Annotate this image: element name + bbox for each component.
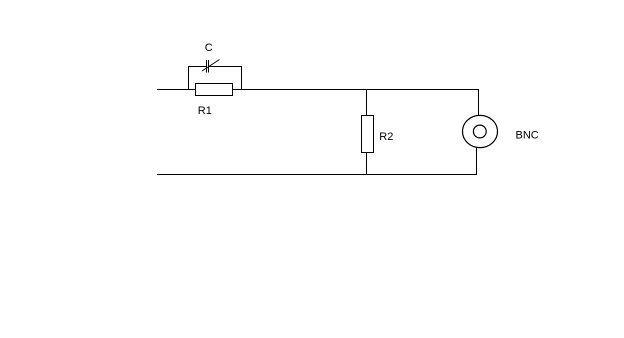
wire loop right vertical <box>241 66 243 90</box>
wire BNC branch bottom vertical <box>476 148 478 175</box>
resistor R2 body <box>361 115 374 153</box>
wire bottom rail <box>157 174 477 176</box>
svg-text:R2: R2 <box>379 131 393 143</box>
svg-text:C: C <box>205 42 213 54</box>
capacitor C1 plate left <box>206 60 208 73</box>
svg-text:R1: R1 <box>198 105 212 117</box>
resistor R1 body <box>195 83 233 96</box>
wire loop left vertical <box>188 66 190 90</box>
capacitor C1 plate right <box>208 60 210 73</box>
wire BNC branch top vertical <box>478 89 480 117</box>
svg-text:BNC: BNC <box>516 129 539 141</box>
connector J1 BNC outer shell <box>463 115 498 147</box>
wire top rail left segment <box>157 89 479 91</box>
capacitor C1 trimmer diagonal <box>202 60 220 72</box>
connector J1 BNC center pin <box>473 125 486 138</box>
wire loop top right segment <box>209 66 242 68</box>
wire loop top left segment <box>188 66 206 68</box>
wire R2 branch vertical <box>366 89 368 175</box>
